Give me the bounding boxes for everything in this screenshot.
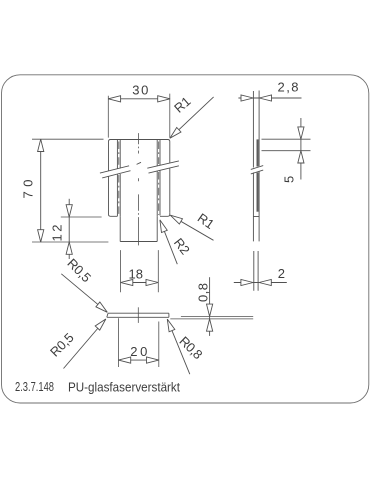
- drawing frame: [2, 75, 369, 403]
- side view bottom tick: [253, 216, 259, 218]
- svg-text:2.3.7.148: 2.3.7.148: [15, 380, 54, 394]
- leader R1 top: [170, 97, 214, 138]
- bore pitch dash-dot line right: [158, 142, 160, 216]
- flange bar: [107, 313, 169, 317]
- svg-text:18: 18: [129, 266, 144, 281]
- flange centerline: [137, 307, 139, 323]
- svg-text:5: 5: [282, 176, 297, 183]
- centerline: [138, 133, 140, 245]
- tube inner wall lines right: [157, 140, 160, 217]
- svg-text:R0,8: R0,8: [176, 333, 205, 362]
- svg-text:R0,5: R0,5: [47, 330, 77, 360]
- dim 2,8 arrows: [241, 95, 253, 101]
- leader R0,5 upper: [61, 274, 107, 313]
- tube top edge with R1 corners: [109, 140, 170, 146]
- svg-text:70: 70: [21, 180, 36, 199]
- leader R1 mid: [170, 215, 213, 240]
- leader R0,8: [167, 319, 190, 374]
- dim 30 arrows: [108, 96, 120, 102]
- leader R0,5 lower: [64, 319, 106, 369]
- dim 2,8 line: [238, 97, 301, 99]
- dim 0,8 lines: [170, 316, 253, 319]
- dim 30 extension lines: [108, 94, 170, 138]
- bore pitch dash-dot line left: [118, 142, 120, 216]
- dim 5 lines: [262, 139, 311, 151]
- svg-text:0,8: 0,8: [196, 283, 211, 302]
- dim 2 line: [234, 282, 287, 284]
- tube left outer wall: [108, 145, 110, 213]
- tube inner wall lines left: [117, 140, 120, 217]
- side view break lines: [251, 166, 263, 174]
- stem: [120, 216, 157, 241]
- dim 70 arrows: [38, 139, 44, 151]
- dim 30 line: [108, 98, 170, 100]
- leader R2: [160, 220, 177, 264]
- dim 20 line: [118, 359, 158, 361]
- svg-text:2,8: 2,8: [278, 80, 299, 95]
- dim 70 line: [40, 139, 42, 242]
- dim 20 extension lines: [118, 318, 158, 367]
- dim 12 line: [68, 199, 70, 259]
- side view upper strip: [253, 91, 259, 242]
- dim 18 arrows: [121, 279, 133, 285]
- dimension texts: [21, 80, 299, 363]
- dim 12 extension line: [61, 216, 102, 218]
- side view raised bar: [257, 139, 259, 166]
- dim 2 arrows: [241, 279, 253, 285]
- svg-text:R1: R1: [171, 94, 193, 116]
- side view lower strip: [254, 251, 258, 291]
- svg-text:20: 20: [130, 344, 147, 359]
- break lines: [100, 161, 179, 178]
- tube right outer wall: [169, 145, 171, 212]
- dim 5 arrows: [298, 127, 304, 139]
- svg-text:R0,5: R0,5: [64, 256, 94, 286]
- svg-text:30: 30: [132, 83, 148, 98]
- svg-text:12: 12: [50, 225, 65, 242]
- dim 18 extension lines: [121, 250, 159, 292]
- dim 20 arrows: [118, 357, 130, 363]
- tube left bottom edge: [109, 213, 118, 217]
- svg-text:PU-glasfaserverstärkt: PU-glasfaserverstärkt: [68, 381, 180, 395]
- svg-text:R1: R1: [195, 210, 217, 232]
- svg-text:R2: R2: [171, 235, 193, 257]
- title block text: [15, 380, 180, 395]
- svg-text:2: 2: [278, 266, 285, 281]
- dim 18 line: [121, 282, 159, 284]
- dim 70 extension lines: [32, 139, 108, 242]
- dim 0,8 arrows: [207, 304, 213, 316]
- dim 12 arrows: [66, 205, 72, 217]
- tube right bottom edge: [160, 212, 170, 216]
